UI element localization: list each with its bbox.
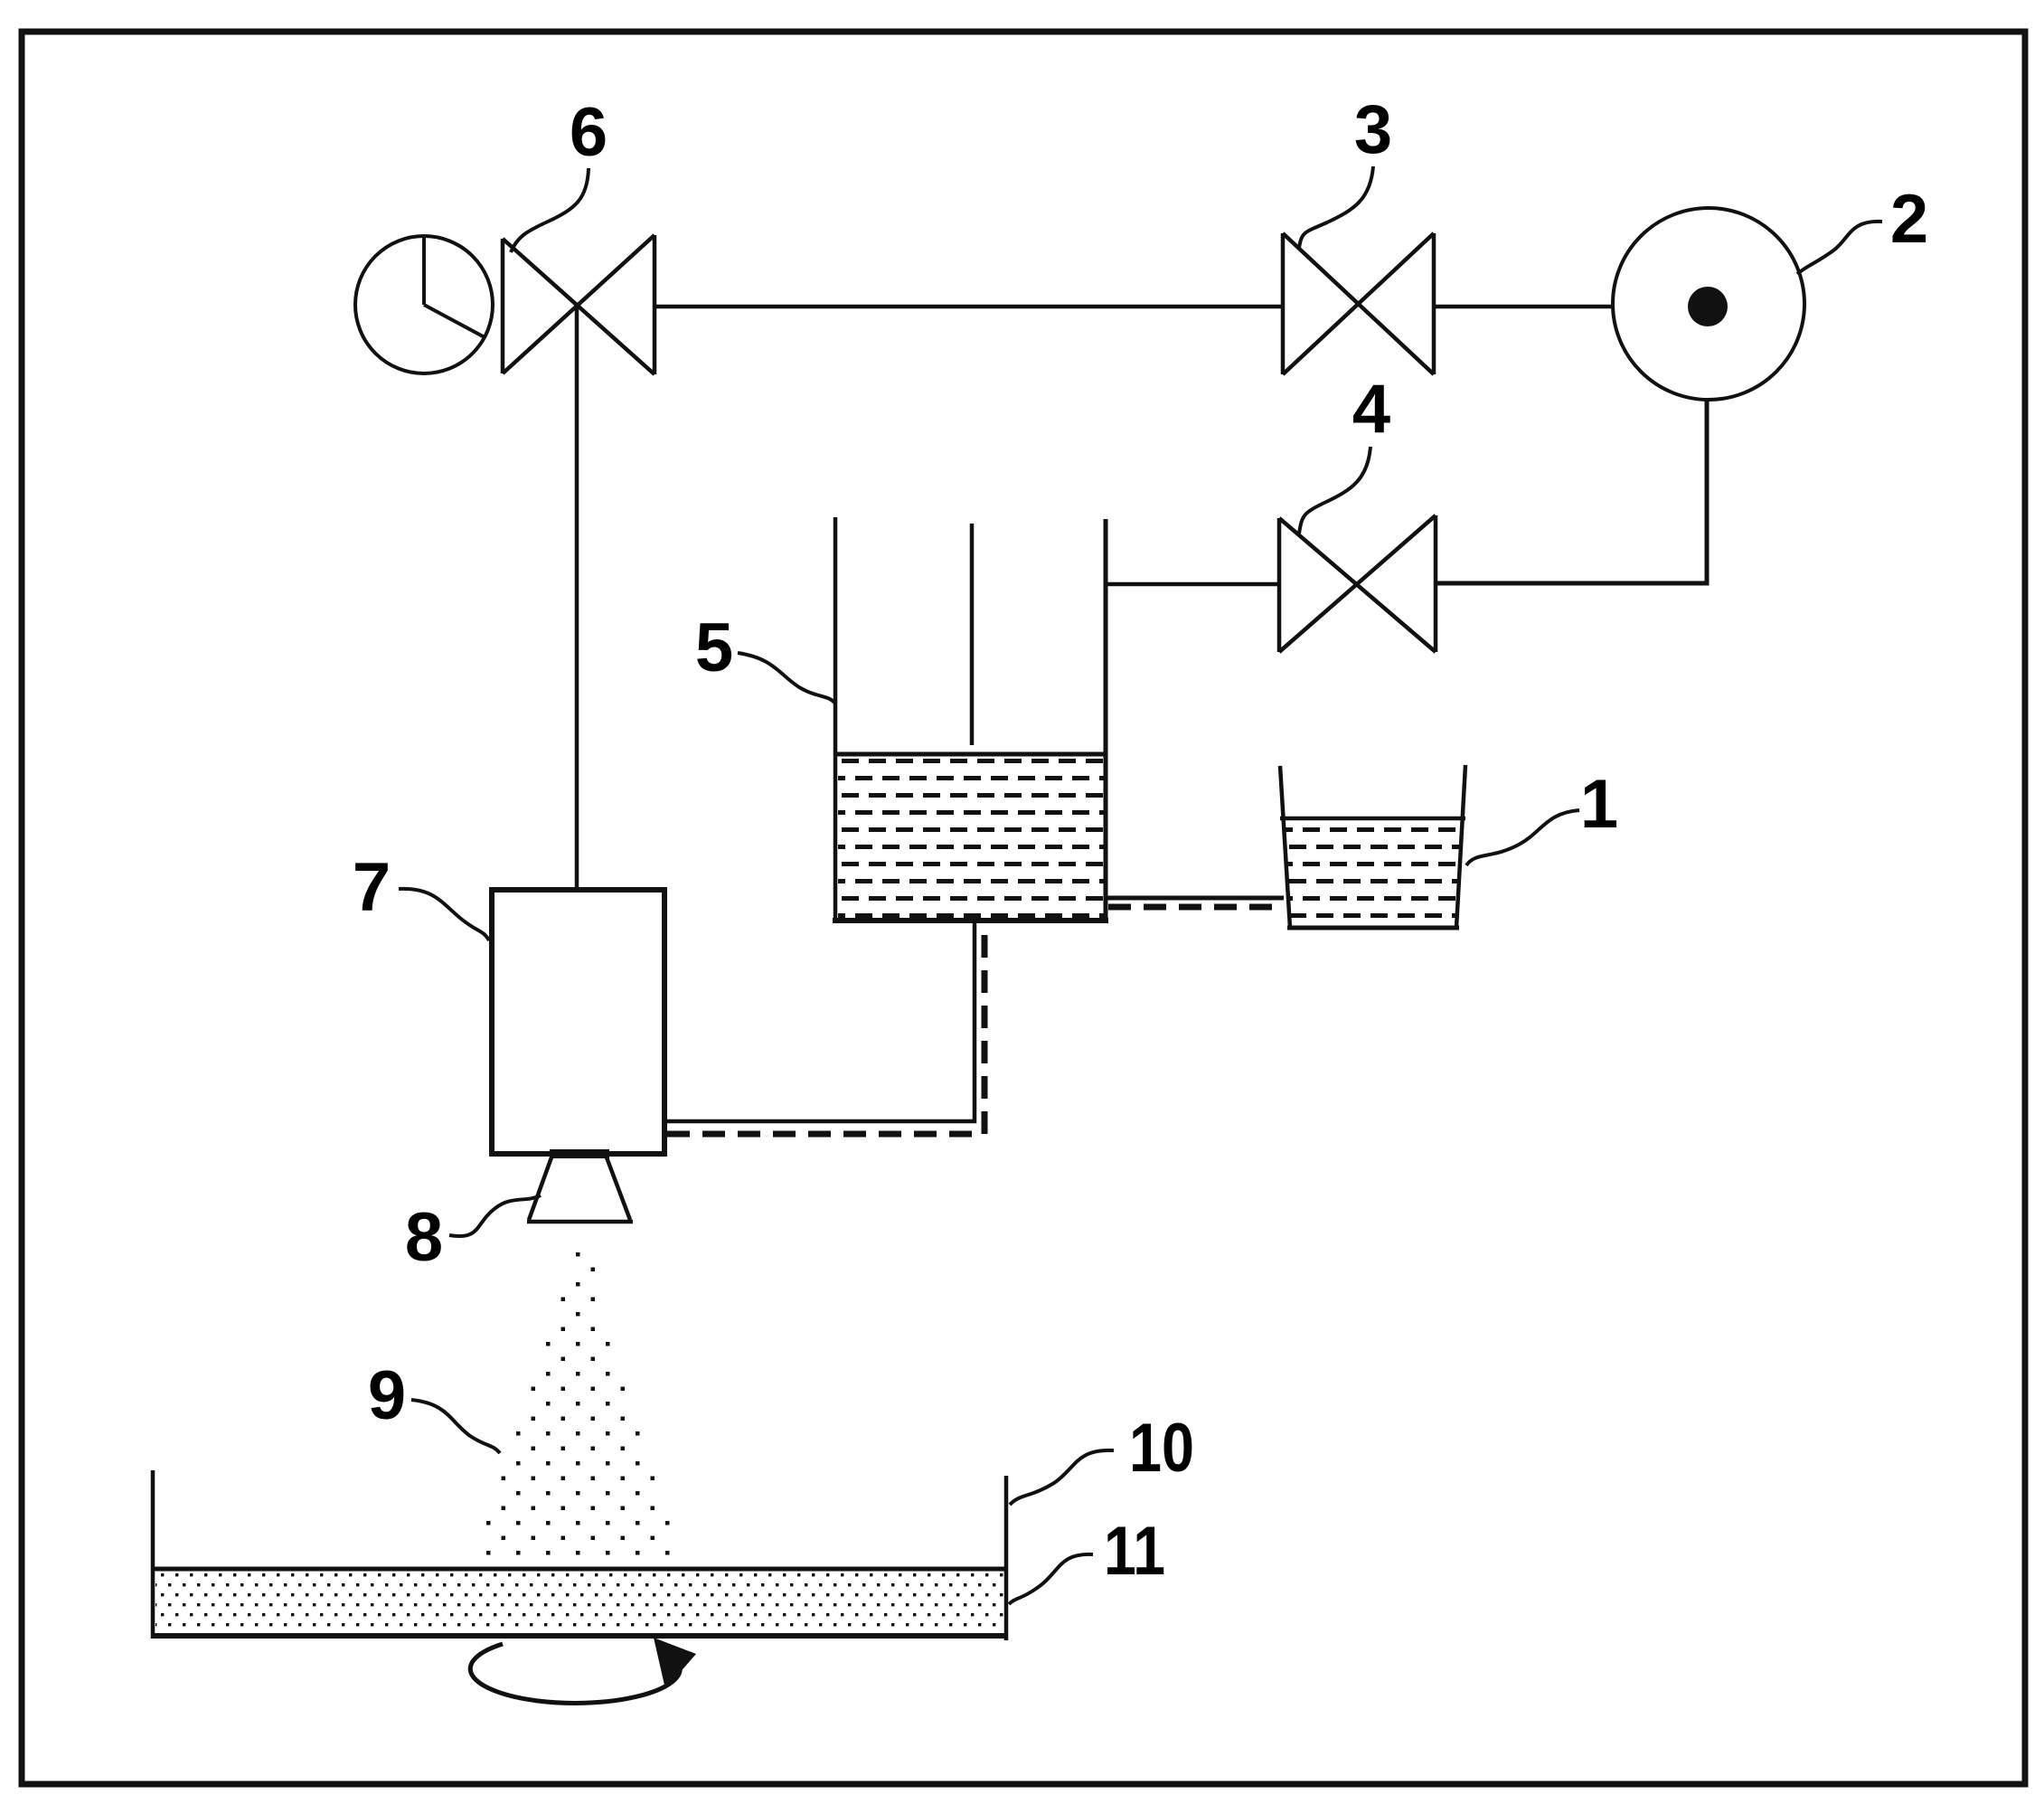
gauge (clock-style indicator) left of valve 6 (355, 236, 493, 373)
container 5 (reservoir with dip tube) (833, 517, 1108, 921)
svg-text:4: 4 (1352, 371, 1390, 448)
svg-text:5: 5 (695, 609, 733, 686)
svg-text:10: 10 (1129, 1410, 1194, 1487)
svg-text:7: 7 (353, 849, 391, 926)
pump 2 (circle with dot) (1613, 208, 1804, 400)
leader 5 (738, 653, 835, 704)
leader 7 (399, 889, 489, 940)
spray 9 (dotted cone) (486, 1252, 670, 1555)
wire valve6 to valve3 (655, 305, 1283, 309)
leader 11 (1009, 1554, 1093, 1604)
valve 3 (1283, 233, 1434, 374)
svg-text:11: 11 (1104, 1513, 1165, 1590)
svg-text:8: 8 (405, 1199, 443, 1276)
svg-text:6: 6 (570, 94, 608, 171)
wire valve6 down to box 7 (575, 307, 579, 889)
layer 11 (dotted coating layer) (153, 1567, 1006, 1572)
valve 6 (503, 235, 655, 374)
leader 3 (1299, 166, 1373, 248)
leader 10 (1010, 1450, 1114, 1505)
nozzle 8 (spray head trapezoid) (527, 1154, 633, 1222)
liquid in container 1 (dashed fill) (1283, 822, 1463, 925)
leader 2 (1797, 222, 1882, 274)
leader 6 (511, 168, 589, 252)
leader 9 (411, 1400, 500, 1453)
liquid in container 5 (dashed fill) (838, 759, 1104, 918)
svg-text:1: 1 (1580, 766, 1618, 843)
wire pump2 down and left to valve 4 (1436, 400, 1707, 583)
rotation arrow (ellipse arc with arrowhead) (470, 1644, 680, 1703)
svg-text:9: 9 (368, 1357, 406, 1434)
wire valve4 to container 5 (1106, 582, 1279, 587)
leader 1 (1466, 810, 1579, 865)
box 7 (spray unit) (492, 890, 664, 1154)
container 1 (open tray with liquid) (1280, 765, 1465, 928)
leader 4 (1299, 447, 1371, 534)
valve 4 (1279, 515, 1436, 652)
svg-text:2: 2 (1890, 181, 1928, 258)
wire valve3 to pump 2 (1434, 305, 1615, 309)
container 10 (rotating dish) (151, 1470, 1008, 1640)
pipe box7 to under container5 (solid + dashed) (667, 921, 975, 1121)
svg-text:3: 3 (1354, 91, 1392, 168)
leader 8 (449, 1195, 541, 1236)
pipe container5 to container1 (solid + dashed) (1106, 896, 1284, 901)
